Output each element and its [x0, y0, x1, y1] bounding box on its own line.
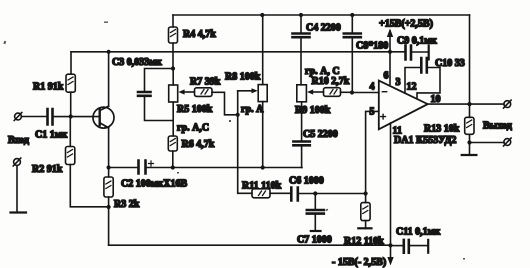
node R4 C3 R5 junction	[171, 66, 175, 70]
svg-text:+15В(+2,5В): +15В(+2,5В)	[379, 19, 433, 30]
svg-text:R8 100k: R8 100k	[225, 72, 261, 83]
svg-text:R9 100k: R9 100k	[295, 105, 331, 116]
svg-text:R1 91k: R1 91k	[33, 82, 64, 93]
capacitor C5	[293, 142, 309, 168]
node R13 output2 junction	[467, 140, 471, 144]
resistor R11	[252, 189, 291, 198]
node output bus C8 tap	[350, 13, 354, 17]
wire to lower output terminal	[470, 142, 505, 144]
svg-text:C11 0,1мк: C11 0,1мк	[396, 227, 440, 238]
+15V arrow	[387, 29, 393, 52]
wire collector	[108, 52, 110, 106]
node C7 tap	[313, 191, 317, 195]
-15V arrow	[387, 257, 393, 266]
node -15V rail junction	[388, 243, 392, 247]
svg-text:C3 0,033мк: C3 0,033мк	[112, 57, 162, 68]
svg-text:гр. А,С: гр. А,С	[177, 123, 209, 134]
node output bus C4 tap	[299, 13, 303, 17]
svg-text:C10 33: C10 33	[435, 58, 465, 69]
svg-text:R3 2k: R3 2k	[114, 199, 140, 210]
wire emitter	[108, 128, 110, 168]
node R8 bottom junction	[261, 165, 265, 169]
node pin4 junction	[350, 90, 354, 94]
node R2 R3 junction	[107, 205, 111, 209]
wire +15V rail	[71, 51, 390, 53]
svg-text:C2 100мкХ16В: C2 100мкХ16В	[121, 179, 188, 190]
wire right rail from bus to output node	[469, 15, 471, 105]
capacitor C2	[109, 161, 302, 174]
wire pin 5	[366, 111, 379, 193]
node emitter junction	[107, 165, 111, 169]
capacitor C4	[293, 15, 310, 85]
node +15 junction	[388, 50, 392, 54]
svg-text:R5 100k: R5 100k	[177, 104, 213, 115]
svg-text:C6 1000: C6 1000	[289, 176, 324, 187]
wire output feedback bus top	[173, 14, 470, 16]
capacitor C8	[344, 15, 361, 93]
svg-text:R7 39k: R7 39k	[190, 77, 221, 88]
transistor VT1	[93, 52, 114, 168]
node R6 bottom junction	[171, 165, 175, 169]
svg-text:C9 0,1мк: C9 0,1мк	[397, 36, 437, 47]
resistor R7	[195, 88, 238, 115]
svg-text:R6 4,7k: R6 4,7k	[182, 139, 215, 150]
capacitor C9	[390, 46, 429, 60]
svg-text:Вход: Вход	[8, 135, 29, 146]
svg-text:3: 3	[396, 77, 401, 88]
wire pin 4	[352, 92, 379, 94]
svg-text:R2 91k: R2 91k	[32, 164, 63, 175]
node output bus R8 tap	[260, 13, 264, 17]
wire R8 wiper down to R11	[238, 91, 252, 194]
capacitor C1	[48, 109, 100, 125]
wire pin 10 output	[428, 103, 504, 105]
node base junction	[69, 114, 73, 118]
capacitor C11	[391, 240, 429, 253]
svg-text:гр. А: гр. А	[241, 104, 264, 115]
capacitor C10 compensation loop	[405, 58, 440, 99]
capacitor C3	[138, 69, 173, 121]
resistor R2	[66, 117, 109, 207]
svg-text:R13 10k: R13 10k	[424, 124, 460, 135]
resistor R1	[66, 74, 75, 116]
resistor R12	[358, 194, 371, 229]
node pin5 R12 junction	[364, 191, 368, 195]
wire pin 6 supply	[389, 52, 391, 84]
svg-text:C1 1мк: C1 1мк	[35, 130, 68, 141]
capacitor C6	[291, 188, 365, 201]
capacitor C7	[307, 194, 324, 232]
output terminal XS4	[504, 138, 512, 146]
resistor R4	[169, 15, 178, 69]
svg-text:6: 6	[384, 71, 389, 82]
input terminal XS2	[13, 158, 21, 213]
svg-text:- 15В(- 2,5В): - 15В(- 2,5В)	[332, 257, 386, 268]
resistor R3	[104, 168, 113, 246]
svg-text:R10 2,7k: R10 2,7k	[312, 76, 350, 87]
wire -15V bottom rail	[109, 244, 391, 246]
svg-text:R12 110k: R12 110k	[344, 236, 384, 247]
resistor R10	[324, 88, 353, 97]
resistor R13	[465, 104, 474, 155]
potentiometer R5	[169, 69, 195, 137]
input terminal XS1	[14, 113, 47, 121]
output terminal XS3	[504, 100, 512, 108]
ground bar input common	[11, 211, 27, 213]
ground bar below R13	[462, 154, 477, 156]
resistor R6	[168, 136, 177, 168]
wire pin 11 to -15V	[390, 123, 392, 262]
svg-text:R4 4,7k: R4 4,7k	[183, 29, 216, 40]
svg-text:12: 12	[407, 82, 417, 93]
node output junction	[467, 102, 471, 106]
wire R1 top lead	[70, 52, 72, 74]
svg-text:C5 2200: C5 2200	[303, 129, 338, 140]
node collector to +15V	[107, 50, 111, 54]
svg-text:4: 4	[370, 82, 375, 93]
op-amp DA1	[379, 81, 428, 130]
svg-text:C8*180: C8*180	[356, 41, 388, 52]
potentiometer R9	[297, 85, 324, 141]
node R7 wiper bus junction	[236, 113, 240, 117]
svg-text:R11 110k: R11 110k	[242, 181, 282, 192]
svg-text:C4 2200: C4 2200	[306, 23, 341, 34]
scan specks	[3, 22, 465, 260]
svg-text:DA1 К553УД2: DA1 К553УД2	[394, 135, 456, 146]
svg-text:C7 1000: C7 1000	[297, 235, 332, 246]
potentiometer R8	[238, 15, 268, 193]
svg-text:Выход: Выход	[483, 121, 512, 132]
